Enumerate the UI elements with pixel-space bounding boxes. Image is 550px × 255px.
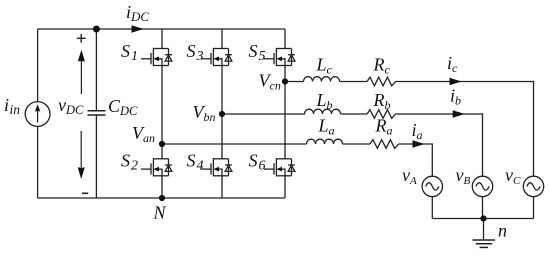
node n <box>480 215 486 221</box>
wire neutral bottom <box>432 218 533 220</box>
node Vcn <box>282 78 288 84</box>
plus sign <box>77 34 86 43</box>
capacitor CDC top stem <box>95 29 97 111</box>
wire phase c mid <box>340 81 368 83</box>
wire phase b mid <box>341 113 368 115</box>
wire top rail <box>38 28 285 30</box>
voltage source vC <box>523 176 543 196</box>
current arrow ic <box>450 78 462 85</box>
inductor La <box>307 139 343 144</box>
leg 3 drain wire <box>284 29 286 49</box>
transistor S6 <box>264 158 295 176</box>
inductor Lb <box>305 109 341 114</box>
leg 2 drain wire <box>221 29 223 49</box>
node Vbn <box>219 111 225 117</box>
wire vA stub <box>431 197 433 219</box>
leg 1 source wire <box>161 176 163 198</box>
wire bottom rail <box>38 197 285 199</box>
leg 1 mid wire <box>161 66 163 159</box>
current arrow ia <box>413 140 425 147</box>
leg 3 source wire <box>284 176 286 198</box>
capacitor CDC bottom stem <box>95 115 97 198</box>
transistor S5 <box>264 48 295 66</box>
wire phase a right <box>399 144 433 176</box>
iDC arrow <box>132 28 144 30</box>
transistor S2 <box>141 158 172 176</box>
voltage source vA <box>422 176 442 196</box>
wire phase c left <box>285 81 304 83</box>
ground <box>483 219 485 241</box>
wire phase b left <box>222 113 305 115</box>
wire phase a left <box>162 143 307 145</box>
wire vB stub <box>482 197 484 219</box>
wire left rail lower <box>37 127 39 198</box>
svg-text:n: n <box>498 221 507 241</box>
minus sign <box>82 192 88 194</box>
node Van <box>159 141 165 147</box>
vDC down arrow <box>80 131 82 167</box>
wire vC stub <box>533 197 535 219</box>
transistor S4 <box>201 158 232 176</box>
resistor Rb <box>367 110 396 119</box>
leg 3 mid wire <box>284 66 286 159</box>
node N <box>159 195 165 201</box>
wire phase a mid <box>343 143 371 145</box>
transistor S3 <box>201 48 232 66</box>
leg 2 mid wire <box>221 66 223 159</box>
wire phase c right <box>396 82 534 177</box>
svg-text:N: N <box>153 203 167 223</box>
current source Iin <box>25 102 50 127</box>
resistor Rc <box>367 77 396 86</box>
current arrow ib <box>453 110 465 117</box>
vDC up arrow <box>80 59 82 94</box>
resistor Ra <box>370 140 399 149</box>
leg 2 source wire <box>221 176 223 198</box>
wire left rail upper <box>37 29 39 102</box>
voltage source vB <box>472 176 492 196</box>
node junction DC top <box>93 26 100 33</box>
wire phase b right <box>396 114 483 176</box>
capacitor CDC plates <box>88 111 106 115</box>
inductor Lc <box>304 77 340 82</box>
leg 1 drain wire <box>161 29 163 49</box>
transistor S1 <box>141 48 172 66</box>
